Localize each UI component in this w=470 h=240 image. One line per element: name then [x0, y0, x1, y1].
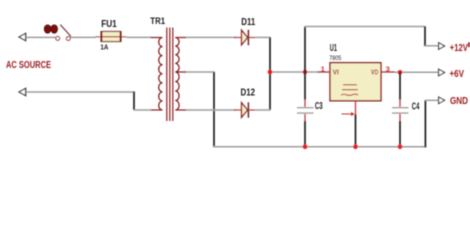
wire +12V riser — [424, 27, 426, 47]
pin 1 stub — [318, 71, 331, 73]
transformer TR1 primary winding — [151, 38, 163, 111]
junction C3 bottom — [303, 145, 308, 150]
capacitor C3 wire bottom — [304, 121, 306, 147]
svg-text:FU1: FU1 — [101, 19, 117, 30]
capacitor C4 wire bottom — [399, 121, 401, 147]
svg-text:D11: D11 — [241, 17, 255, 28]
wire bottom port to corner — [26, 91, 135, 93]
junction C4 top — [398, 70, 403, 75]
junction C4 bottom — [398, 145, 403, 150]
svg-text:C4: C4 — [412, 101, 420, 112]
wire D11 to corner — [255, 36, 271, 38]
regulator U1 ground symbol — [341, 85, 358, 96]
clipped glyph at image edge — [468, 42, 470, 47]
port AC input top — [19, 33, 26, 41]
transformer TR1 core — [167, 28, 173, 122]
pin 3 stub — [381, 71, 395, 73]
svg-text:GND: GND — [450, 96, 468, 107]
wire +12V top rail — [304, 26, 425, 28]
capacitor C4 wire top — [399, 72, 401, 99]
wire rectifier output vertical — [269, 37, 271, 110]
wire to GND port — [425, 99, 438, 101]
svg-text:7805: 7805 — [329, 55, 341, 62]
wire secondary bottom to D12 — [186, 109, 236, 111]
pin 2 marker — [342, 112, 355, 116]
transformer TR1 secondary winding — [175, 38, 186, 111]
svg-text:AC SOURCE: AC SOURCE — [6, 60, 51, 71]
wire DC rail to U1 — [270, 71, 318, 73]
capacitor C4 — [392, 100, 409, 122]
svg-text:TR1: TR1 — [150, 15, 165, 26]
wire to +12V port — [425, 45, 438, 47]
wire switch to fuse — [70, 36, 96, 38]
svg-text:U1: U1 — [330, 42, 337, 54]
svg-text:VI: VI — [333, 68, 339, 77]
wire pin 2 to ground rail — [355, 115, 357, 148]
wire secondary centre tap — [186, 71, 215, 73]
fuse FU1 — [96, 32, 127, 42]
capacitor C3 wire top — [304, 72, 306, 100]
port +6V — [439, 69, 445, 76]
wire corner to primary bottom — [134, 109, 151, 111]
svg-text:VO: VO — [371, 68, 378, 77]
wire fuse to transformer — [127, 36, 152, 38]
wire ground riser — [424, 100, 426, 147]
diode D12 — [234, 102, 255, 117]
wire corner down — [133, 92, 135, 111]
wire port to switch — [26, 36, 56, 38]
wire ground rail — [213, 146, 426, 148]
junction C3 top — [303, 70, 308, 75]
regulator U1 body — [330, 63, 381, 101]
svg-text:D12: D12 — [241, 88, 256, 99]
switch SW1 — [56, 25, 71, 41]
wire centre tap down to ground rail — [213, 72, 215, 147]
junction U1 pin 2 — [353, 145, 358, 150]
wire secondary top to D11 — [186, 36, 236, 38]
port +12V — [439, 43, 445, 50]
wire regulator output rail — [395, 71, 439, 73]
svg-text:+6V: +6V — [450, 69, 465, 80]
svg-text:+12V: +12V — [450, 43, 468, 54]
pin 2 stub — [355, 101, 357, 115]
port GND — [439, 97, 445, 104]
port AC input bottom — [19, 88, 26, 96]
diode D11 — [234, 30, 255, 45]
wire unregulated riser — [304, 27, 306, 73]
junction rectifier output — [268, 70, 273, 75]
wire D12 to corner — [255, 109, 271, 111]
switch SW1 actuator dots — [44, 25, 57, 33]
capacitor C3 — [297, 100, 314, 122]
svg-text:1A: 1A — [100, 42, 108, 51]
svg-text:C3: C3 — [315, 101, 323, 112]
